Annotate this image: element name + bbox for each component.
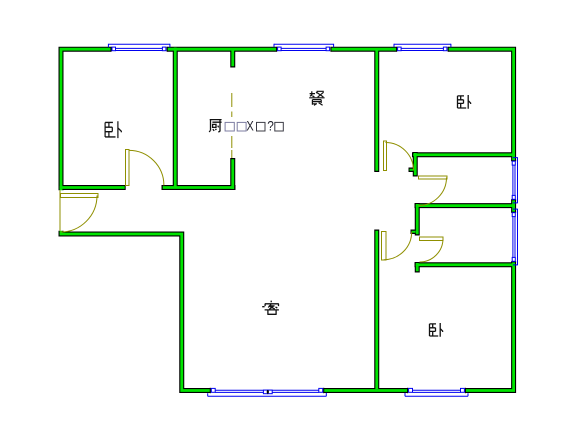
- door D1 bedroom1 leaf: [126, 150, 130, 186]
- svg-text:X: X: [246, 118, 254, 134]
- wall black outlines: [59, 47, 514, 391]
- wall kitchen right upper stub: [230, 47, 235, 68]
- wall green fills: [60, 48, 514, 391]
- wall gap whiteouts: [58, 46, 517, 393]
- window W5 bottom bedroom3: [405, 388, 468, 396]
- wall balcony divider: [415, 203, 514, 208]
- wall divider bedroom1/kitchen: [173, 47, 178, 188]
- door D2 arc: [61, 196, 98, 233]
- door D5 arc: [384, 232, 412, 260]
- label living 客: [262, 301, 279, 315]
- wall kitchen bottom segment: [162, 185, 236, 190]
- wall bedroom3 top: [415, 262, 514, 267]
- label bedroom2 卧: [458, 95, 471, 109]
- door D6 arc: [420, 239, 444, 263]
- kitchen sliding door dashes: [231, 93, 233, 107]
- label bedroom1 卧: [105, 121, 121, 138]
- window W1 top bedroom1: [108, 44, 169, 51]
- wall stub2: [415, 203, 420, 236]
- label dining 餐: [309, 91, 324, 105]
- wall end caps at window gaps: [111, 47, 516, 393]
- door D3 arc: [386, 143, 414, 171]
- window W4 bottom living room: [208, 388, 327, 396]
- wall bedroom2 bottom: [412, 152, 514, 157]
- wall outer boundary loop: [61, 49, 514, 390]
- window W7 right balcony2: [512, 209, 518, 265]
- window W2 top dining: [274, 44, 334, 51]
- label kitchen garbled boxes and chars: [225, 118, 283, 134]
- wall divider dining/living upper segment: [374, 47, 379, 172]
- door D5 living leaf: [382, 232, 387, 261]
- window W4 mullion mark: [263, 390, 267, 394]
- door D4 balcony1 leaf: [419, 176, 448, 179]
- wall kitchen right lower segment: [230, 158, 235, 190]
- door D2 entrance frame line: [59, 190, 61, 230]
- wall bedroom1 bottom left segment: [59, 185, 126, 190]
- window W6 right balcony1: [512, 158, 518, 203]
- wall divider living/bed lower segment: [374, 230, 379, 391]
- doors in olive: [60, 93, 447, 262]
- door D2 entrance leaf: [61, 194, 99, 198]
- wall bedroom3 top left return: [415, 262, 420, 273]
- wall stub1: [413, 152, 418, 177]
- door D6 balcony2 leaf: [420, 237, 444, 241]
- door D3 dining leaf: [384, 141, 387, 171]
- wall nib1: [409, 168, 414, 173]
- door D1 arc: [129, 150, 164, 185]
- door D4 arc: [419, 178, 447, 206]
- label kitchen 厨: [209, 120, 221, 133]
- window W3 top bedroom2: [394, 44, 451, 51]
- label bedroom3 卧: [430, 323, 443, 337]
- wall nib2: [411, 230, 416, 235]
- svg-text:?: ?: [267, 118, 274, 134]
